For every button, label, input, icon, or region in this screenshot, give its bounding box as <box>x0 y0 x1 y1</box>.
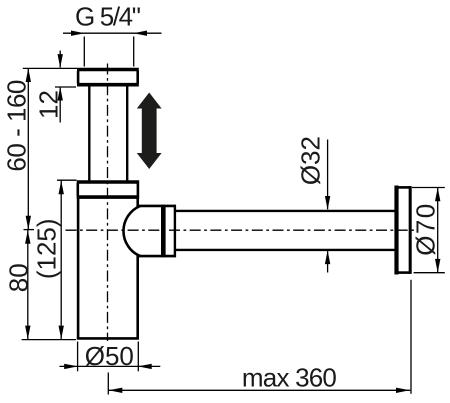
svg-text:Ø70: Ø70 <box>410 204 440 256</box>
inlet pipe (vertical adjustable tube) <box>89 85 127 182</box>
dimension (125) arrows <box>59 181 64 195</box>
svg-text:(125): (125) <box>32 218 62 279</box>
svg-text:G 5/4": G 5/4" <box>75 1 141 31</box>
dimension G 5/4 line <box>63 33 162 66</box>
svg-text:12: 12 <box>34 90 64 119</box>
dimension 12 arrows <box>58 54 63 68</box>
vertical centerline <box>107 64 109 342</box>
dimension G 5/4 arrows <box>71 31 85 36</box>
dimension (125) line <box>57 180 77 339</box>
compression nut right face <box>174 205 176 257</box>
wall flange <box>397 186 411 275</box>
top flange nut <box>77 70 139 85</box>
dimension Ø50 line <box>60 342 161 372</box>
dimension Ø70 line <box>412 188 445 273</box>
dimension Ø32 arrows <box>325 196 330 210</box>
dimension Ø32 line <box>327 140 329 273</box>
dimension max 360 line <box>108 280 411 395</box>
dimension 12 line <box>55 51 76 123</box>
svg-text:Ø32: Ø32 <box>296 136 326 185</box>
body top flange <box>77 182 140 197</box>
dimension 80 arrows <box>25 230 30 244</box>
trap cup body <box>77 198 139 340</box>
horizontal centerline <box>66 229 415 231</box>
svg-text:Ø50: Ø50 <box>85 341 134 371</box>
svg-text:60 - 160: 60 - 160 <box>1 80 31 172</box>
elbow outlet (curved nose, covers cup wall) <box>123 206 175 256</box>
svg-text:80: 80 <box>3 263 33 292</box>
adjustability double arrow <box>137 93 162 170</box>
svg-text:max 360: max 360 <box>242 363 337 393</box>
dimension 60-160 arrows <box>26 68 31 82</box>
dimension 80 line <box>22 230 76 340</box>
compression nut divider <box>161 205 166 257</box>
dimension 60-160 line <box>23 68 77 229</box>
elbow bottom edge <box>139 255 176 258</box>
dimension max 360 arrows <box>109 388 123 393</box>
elbow top edge <box>139 205 176 208</box>
dimension Ø70 arrows <box>435 188 440 202</box>
outlet pipe (horizontal) <box>176 211 395 250</box>
dimension Ø50 arrows <box>64 364 78 369</box>
